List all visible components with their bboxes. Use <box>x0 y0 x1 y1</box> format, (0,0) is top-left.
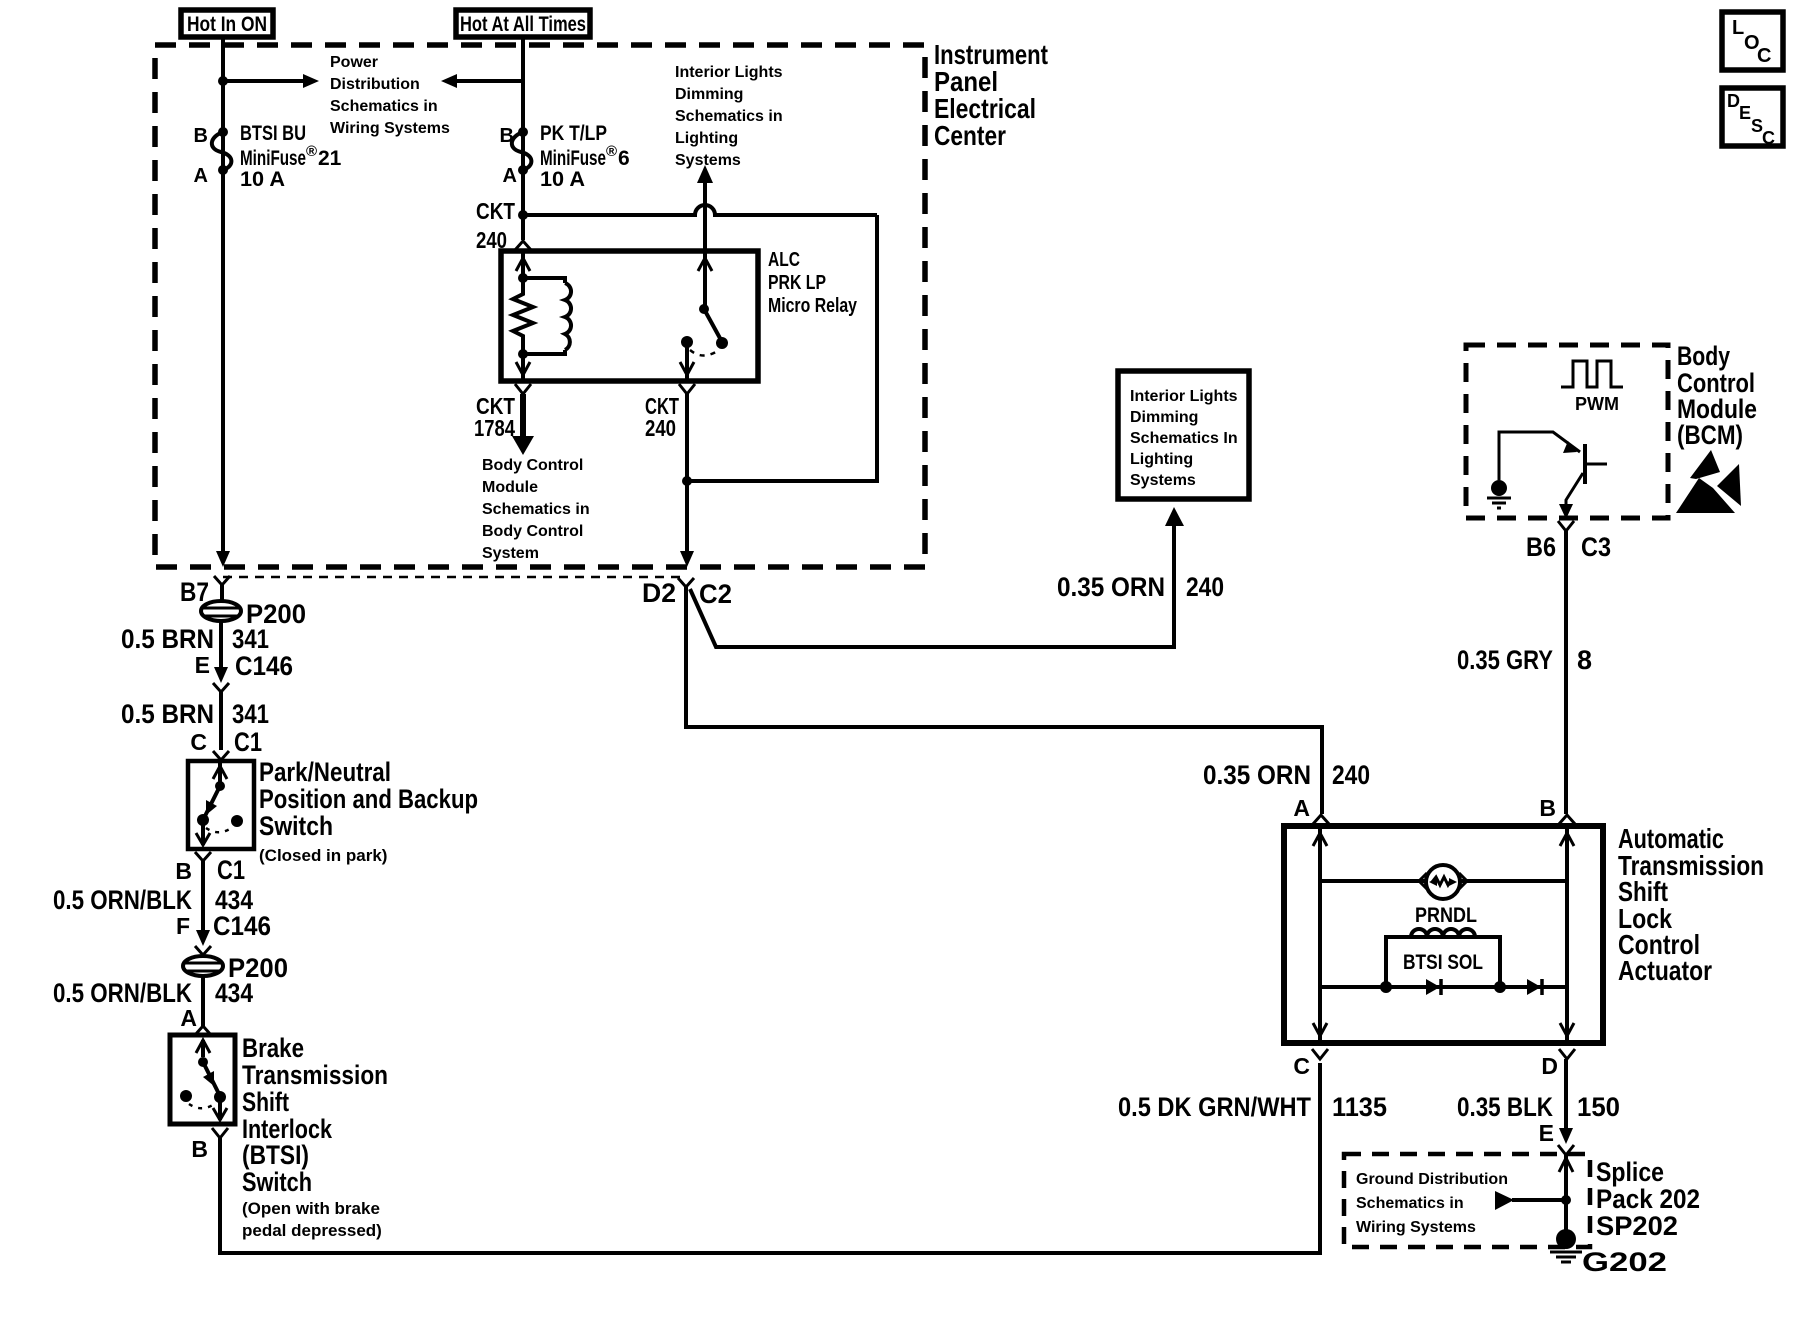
connector chevron actuator B <box>1559 815 1575 824</box>
svg-text:341: 341 <box>232 699 269 729</box>
svg-text:Pack 202: Pack 202 <box>1596 1184 1700 1214</box>
svg-text:C2: C2 <box>699 579 732 609</box>
wire CKT 1784 thick arrow to BCM schematics <box>512 394 534 455</box>
pin label E (splice pack) <box>1539 1120 1554 1146</box>
svg-text:D2: D2 <box>642 578 676 608</box>
op relay ALC PRK LP Micro Relay box <box>501 251 758 381</box>
label C3 <box>1581 532 1611 562</box>
svg-text:C146: C146 <box>213 911 271 941</box>
svg-text:C3: C3 <box>1581 532 1611 562</box>
svg-text:B6: B6 <box>1526 532 1556 562</box>
label CKT 240 (at fuse output) <box>476 198 515 253</box>
wire CKT 240 horizontal with hop over switch feed <box>523 205 877 215</box>
label CKT 240 (switch output) <box>645 393 679 441</box>
label B7 <box>180 577 209 607</box>
svg-text:Center: Center <box>934 120 1006 151</box>
svg-text:Dimming: Dimming <box>1130 409 1198 426</box>
svg-text:Transmission: Transmission <box>242 1060 388 1090</box>
svg-text:B: B <box>175 858 192 884</box>
svg-text:MiniFuse: MiniFuse <box>540 147 606 170</box>
pin label A (BTSI switch) <box>180 1005 197 1031</box>
module Body Control Module dashed box <box>1466 345 1668 518</box>
label C1 (upper) <box>234 727 262 757</box>
note Interior Lights Dimming Schematics in Lighting Systems (top) <box>675 64 783 169</box>
fuse BTSI BU MiniFuse 21 <box>212 127 232 175</box>
relay switch dashed throw arc <box>690 350 719 356</box>
svg-text:MiniFuse: MiniFuse <box>240 147 306 170</box>
PNP switch output arrow <box>196 820 210 845</box>
connector chevron into relay coil (top) <box>515 241 531 250</box>
svg-text:A: A <box>1293 795 1310 821</box>
svg-text:BTSI BU: BTSI BU <box>240 122 306 145</box>
svg-text:Body Control: Body Control <box>482 457 583 474</box>
box Interior Lights Dimming Schematics In Lighting Systems <box>1118 371 1249 499</box>
node CKT 240 junction <box>518 210 528 220</box>
svg-text:Micro Relay: Micro Relay <box>768 295 858 317</box>
relay coil output arrow <box>516 354 530 381</box>
svg-text:Schematics in: Schematics in <box>1356 1195 1464 1212</box>
connector chevron below relay switch <box>679 384 695 394</box>
connector chevron below BTSI switch <box>212 1128 228 1138</box>
connector E (arrow and chevron) <box>1558 1128 1574 1155</box>
note Body Control Module Schematics in Body Control System <box>482 457 590 562</box>
arrow left wire into IPEC bottom edge <box>216 551 230 567</box>
connector B6 C3 (arrow and chevron) <box>1558 504 1574 531</box>
svg-text:Wiring Systems: Wiring Systems <box>1356 1219 1476 1236</box>
PWM waveform symbol <box>1561 361 1623 414</box>
svg-text:21: 21 <box>318 147 342 170</box>
wire BTSI B to actuator C (bottom run) <box>220 1063 1320 1253</box>
Instrument Panel Electrical Center dashed box <box>155 45 925 567</box>
wire label 0.5 ORN/BLK 434 (lower) <box>53 978 253 1008</box>
svg-text:B: B <box>191 1136 208 1162</box>
connector chevron actuator D <box>1559 1049 1575 1059</box>
value label BTSI BU MiniFuse 21 10 A <box>240 122 342 191</box>
BTSI switch dashed throw arc <box>189 1103 216 1108</box>
inductor BTSI SOL coil <box>1411 929 1475 937</box>
svg-text:E: E <box>195 652 210 678</box>
relay coil input arrow <box>516 251 530 278</box>
svg-text:E: E <box>1539 1120 1554 1146</box>
svg-text:Schematics in: Schematics in <box>482 501 590 518</box>
svg-text:0.5 ORN/BLK: 0.5 ORN/BLK <box>53 885 192 915</box>
lamp PRNDL branch wire <box>1320 873 1567 889</box>
note Power Distribution Schematics in Wiring Systems <box>330 54 450 137</box>
svg-text:B: B <box>194 125 208 147</box>
connector C146 F (arrow and chevron) <box>195 930 211 957</box>
wire from Hot In ON down to connector B7 <box>221 37 225 552</box>
ground G202 <box>1550 1229 1582 1262</box>
connector D2 C2 chevron <box>678 578 694 587</box>
connector chevron into BTSI switch <box>195 1026 211 1035</box>
svg-text:Distribution: Distribution <box>330 76 420 93</box>
svg-text:8: 8 <box>1577 645 1592 675</box>
svg-text:Power: Power <box>330 54 378 71</box>
svg-text:pedal depressed): pedal depressed) <box>242 1221 382 1240</box>
connector chevron into PNP switch <box>213 751 229 760</box>
label Park/Neutral Position and Backup Switch <box>259 757 478 865</box>
svg-text:(BCM): (BCM) <box>1677 420 1743 450</box>
pin label C (PNP switch) <box>190 729 207 755</box>
svg-text:System: System <box>482 545 539 562</box>
label Body Control Module (BCM) <box>1677 341 1757 450</box>
solenoid BTSI SOL box <box>1386 937 1500 987</box>
svg-text:0.35 BLK: 0.35 BLK <box>1457 1092 1553 1122</box>
pin label B (BTSI switch) <box>191 1136 208 1162</box>
svg-text:0.5 BRN: 0.5 BRN <box>121 624 214 654</box>
arrow to Power Distribution Schematics (from left wire) <box>223 74 319 88</box>
node BTSI SOL left junction <box>1380 981 1392 993</box>
relay switch arm <box>698 251 728 349</box>
svg-text:Splice: Splice <box>1596 1157 1664 1187</box>
svg-text:0.35 GRY: 0.35 GRY <box>1457 645 1553 675</box>
PNP switch arm <box>197 763 227 826</box>
svg-text:Park/Neutral: Park/Neutral <box>259 757 391 787</box>
label CKT 1784 <box>474 393 515 441</box>
node junction on Hot In ON feed <box>218 76 228 86</box>
svg-text:Body Control: Body Control <box>482 523 583 540</box>
svg-text:Wiring Systems: Wiring Systems <box>330 120 450 137</box>
svg-text:BTSI SOL: BTSI SOL <box>1403 951 1483 974</box>
svg-text:Brake: Brake <box>242 1033 304 1063</box>
svg-text:Lighting: Lighting <box>1130 451 1193 468</box>
connector chevron below relay coil <box>515 384 531 394</box>
BTSI switch arm <box>196 1040 226 1103</box>
label C1 (lower) <box>217 855 245 885</box>
arrow switch wire into IPEC bottom edge <box>680 551 694 567</box>
svg-text:Schematics in: Schematics in <box>675 108 783 125</box>
switch Brake Transmission Shift Interlock box <box>170 1035 235 1124</box>
svg-text:Systems: Systems <box>675 152 741 169</box>
PNP switch open contact <box>231 815 243 827</box>
pin label B (fuse 21) <box>194 125 208 147</box>
svg-text:PRK LP: PRK LP <box>768 272 826 294</box>
svg-text:A: A <box>503 165 517 187</box>
svg-text:C: C <box>1757 45 1771 67</box>
pin label A (actuator) <box>1293 795 1310 821</box>
connector C146 E (arrow and chevron) <box>213 667 229 750</box>
svg-text:B7: B7 <box>180 577 209 607</box>
node coil bottom junction <box>518 349 528 359</box>
connector chevron below PNP switch <box>195 852 211 935</box>
svg-text:G202: G202 <box>1582 1247 1667 1277</box>
wire relay switch feed up-arrow to dimming schematics <box>697 165 713 251</box>
label C146 (upper) <box>235 651 293 681</box>
label Automatic Transmission Shift Lock Control Actuator <box>1618 823 1764 986</box>
svg-text:®: ® <box>306 143 317 160</box>
node BTSI SOL right junction <box>1494 981 1506 993</box>
node switch output / right loop junction <box>682 476 692 486</box>
value label PK T/LP MiniFuse 6 10 A <box>540 122 630 191</box>
label Brake Transmission Shift Interlock (BTSI) Switch <box>242 1033 388 1240</box>
pin label B6 <box>1526 532 1556 562</box>
connector B7 chevron <box>214 576 230 601</box>
connector chevron actuator C <box>1312 1049 1328 1059</box>
svg-text:341: 341 <box>232 624 269 654</box>
svg-text:B: B <box>1539 795 1556 821</box>
wire label 0.5 BRN 341 (upper) <box>121 624 269 654</box>
BTSI switch open contact <box>180 1090 192 1102</box>
lamp PRNDL <box>1415 865 1477 927</box>
svg-text:CKT: CKT <box>476 198 515 224</box>
svg-text:10 A: 10 A <box>240 168 285 191</box>
relay switch common contact <box>680 336 694 381</box>
svg-text:Actuator: Actuator <box>1618 955 1712 986</box>
inductor relay coil <box>523 278 571 354</box>
svg-text:C146: C146 <box>235 651 293 681</box>
pin label D (actuator) <box>1541 1053 1558 1079</box>
svg-text:Switch: Switch <box>259 811 333 841</box>
PNP switch dashed throw arc <box>206 827 233 832</box>
wire label 0.35 BLK 150 <box>1457 1092 1620 1122</box>
pin label A (fuse 21) <box>194 165 208 187</box>
svg-text:C: C <box>1293 1053 1310 1079</box>
wire label 0.35 ORN 240 (dimming branch) <box>1057 572 1224 602</box>
wire D2 to actuator A (0.35 ORN 240) <box>686 587 1322 814</box>
wire P200 to BTSI switch <box>201 976 205 1027</box>
connector P200 (upper pancake) <box>201 601 241 621</box>
diode D1 <box>1426 979 1441 995</box>
ESD sensitive symbol <box>1676 450 1741 513</box>
svg-text:Lighting: Lighting <box>675 130 738 147</box>
svg-text:0.5 ORN/BLK: 0.5 ORN/BLK <box>53 978 192 1008</box>
header box Hot In ON <box>181 10 273 37</box>
svg-text:Module: Module <box>482 479 538 496</box>
label Splice Pack 202 SP202 <box>1596 1157 1700 1241</box>
svg-text:SP202: SP202 <box>1596 1211 1678 1241</box>
pin label B (PNP switch) <box>175 858 192 884</box>
actuator left internal wire with arrows <box>1313 826 1327 1043</box>
splice pack SP202 dashed box <box>1344 1154 1590 1247</box>
actuator Automatic Transmission Shift Lock Control box <box>1284 826 1603 1043</box>
actuator lower internal wire <box>1320 985 1567 989</box>
node coil top junction <box>518 273 528 283</box>
svg-text:Interior Lights: Interior Lights <box>675 64 783 81</box>
fuse PK T/LP MiniFuse 6 <box>512 127 532 175</box>
svg-text:A: A <box>194 165 208 187</box>
LOC icon box <box>1722 12 1783 70</box>
svg-text:PK T/LP: PK T/LP <box>540 122 607 145</box>
svg-text:10 A: 10 A <box>540 168 585 191</box>
wire BCM C3 to actuator B (0.35 GRY 8) <box>1564 531 1568 814</box>
svg-text:0.5 BRN: 0.5 BRN <box>121 699 214 729</box>
wire label 0.35 ORN 240 (actuator branch) <box>1203 760 1370 790</box>
pin label B (actuator) <box>1539 795 1556 821</box>
svg-text:PWM: PWM <box>1575 394 1619 414</box>
diode D2 <box>1527 979 1542 995</box>
wire splice internal vertical <box>1559 1155 1573 1234</box>
svg-text:Hot At All Times: Hot At All Times <box>460 13 586 36</box>
svg-text:C: C <box>1762 128 1775 148</box>
svg-text:6: 6 <box>618 147 630 170</box>
label G202 <box>1582 1247 1667 1277</box>
wire switch output down to D2 <box>685 394 689 552</box>
label D2 <box>642 578 676 608</box>
wire label 0.5 ORN/BLK 434 (upper) <box>53 885 253 915</box>
svg-text:(BTSI): (BTSI) <box>242 1140 309 1170</box>
svg-text:Position and Backup: Position and Backup <box>259 784 478 814</box>
svg-text:Ground Distribution: Ground Distribution <box>1356 1171 1508 1188</box>
BTSI switch output arrow <box>213 1097 227 1120</box>
svg-text:C1: C1 <box>217 855 245 885</box>
ground (BCM internal) <box>1487 480 1511 508</box>
svg-text:F: F <box>176 913 190 939</box>
svg-text:B: B <box>500 125 514 147</box>
svg-text:150: 150 <box>1577 1092 1620 1122</box>
label C146 (lower) <box>213 911 271 941</box>
switch Park/Neutral Position and Backup box <box>188 761 254 849</box>
svg-text:Shift: Shift <box>242 1087 289 1117</box>
connector face dashed line B7 to D2 <box>223 576 686 579</box>
label C2 <box>699 579 732 609</box>
connector P200 (lower pancake) <box>183 956 223 976</box>
pin label F (C146) <box>176 913 190 939</box>
wire label 0.5 BRN 341 (lower) <box>121 699 269 729</box>
svg-text:Switch: Switch <box>242 1167 312 1197</box>
svg-text:434: 434 <box>215 978 253 1008</box>
wire label 0.5 DK GRN/WHT 1135 <box>1118 1092 1387 1122</box>
arrow to Power Distribution Schematics (from right wire) <box>441 74 523 88</box>
svg-text:PRNDL: PRNDL <box>1415 904 1477 927</box>
svg-text:E: E <box>1739 103 1751 123</box>
transistor Q1 (BCM output driver) <box>1499 432 1607 518</box>
svg-text:1135: 1135 <box>1332 1092 1387 1122</box>
pin label E (C146) <box>195 652 210 678</box>
svg-text:Systems: Systems <box>1130 472 1196 489</box>
svg-text:Dimming: Dimming <box>675 86 743 103</box>
svg-text:A: A <box>180 1005 197 1031</box>
wire C2 to interior lights dimming (0.35 ORN 240 branch) <box>690 507 1184 647</box>
wire B7 to C146 <box>219 621 223 668</box>
svg-text:ALC: ALC <box>768 249 800 271</box>
svg-text:C: C <box>190 729 207 755</box>
svg-text:0.5 DK GRN/WHT: 0.5 DK GRN/WHT <box>1118 1092 1311 1122</box>
pin label B (fuse 6) <box>500 125 514 147</box>
wire label 0.35 GRY 8 <box>1457 645 1592 675</box>
svg-text:D: D <box>1541 1053 1558 1079</box>
svg-text:Hot In ON: Hot In ON <box>187 13 267 36</box>
svg-text:Interior Lights: Interior Lights <box>1130 388 1238 405</box>
svg-text:240: 240 <box>1186 572 1224 602</box>
svg-text:C1: C1 <box>234 727 262 757</box>
splice branch arrow to ground distribution <box>1495 1191 1571 1210</box>
wire from Hot At All Times down to relay <box>521 37 525 240</box>
connector chevron actuator A <box>1313 815 1329 824</box>
Instrument Panel Electrical Center label <box>934 39 1048 151</box>
note Ground Distribution Schematics in Wiring Systems <box>1356 1171 1508 1236</box>
pin label C (actuator) <box>1293 1053 1310 1079</box>
DESC icon box <box>1722 88 1783 148</box>
wire actuator D to splice pack (0.35 BLK 150) <box>1564 1059 1568 1128</box>
svg-text:1784: 1784 <box>474 415 515 441</box>
resistor (relay suppression) <box>513 278 533 354</box>
wire right loop down to switch output <box>687 215 877 481</box>
svg-text:®: ® <box>606 143 617 160</box>
label P200 (upper) <box>246 599 306 629</box>
svg-text:Schematics In: Schematics In <box>1130 430 1238 447</box>
label ALC PRK LP Micro Relay <box>768 249 858 317</box>
svg-text:0.35 ORN: 0.35 ORN <box>1057 572 1165 602</box>
pin label A (fuse 6) <box>503 165 517 187</box>
svg-text:L: L <box>1732 17 1744 39</box>
header box Hot At All Times <box>456 10 590 37</box>
svg-text:Body: Body <box>1677 341 1730 371</box>
svg-text:(Closed in park): (Closed in park) <box>259 846 387 865</box>
svg-text:240: 240 <box>1332 760 1370 790</box>
svg-text:240: 240 <box>645 415 676 441</box>
svg-text:Schematics in: Schematics in <box>330 98 438 115</box>
svg-text:0.35 ORN: 0.35 ORN <box>1203 760 1311 790</box>
svg-text:(Open with brake: (Open with brake <box>242 1199 380 1218</box>
label P200 (lower) <box>228 953 288 983</box>
actuator right internal wire with arrows <box>1560 826 1574 1043</box>
